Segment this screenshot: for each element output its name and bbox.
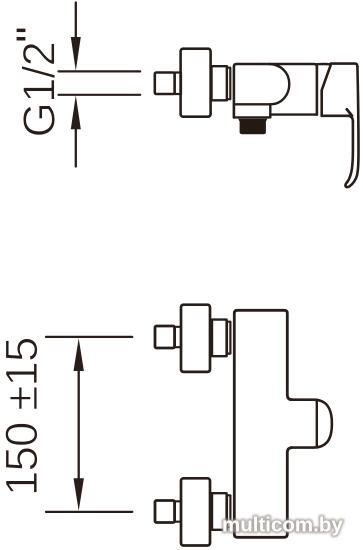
svg-text:G1/2: G1/2 (14, 42, 65, 137)
extension line top (nut top edge) (59, 70, 141, 72)
front view: lower supply nut (155, 501, 175, 523)
dimension line top view (vertical, below) (75, 126, 77, 167)
top view: supply nut (155, 73, 175, 95)
front view: upper adapter (212, 320, 227, 357)
top view: shower outlet (black) (238, 119, 267, 134)
extension line bottom (nut bottom edge) (59, 94, 141, 96)
top view: body outline (234, 64, 317, 117)
top view: under-dome line (234, 103, 272, 105)
top view: cartridge dome (269, 64, 289, 104)
top view: handle top edge (331, 64, 358, 67)
front view: handle chord line (316, 400, 318, 448)
arrowhead up (front view) (74, 338, 84, 371)
front view: upper supply nut (155, 326, 175, 348)
top view: lower chunk right edge (269, 104, 271, 117)
front view: lower ring (227, 495, 230, 527)
watermark multicom.by (222, 514, 343, 537)
inch quote mark 1 (17, 29, 26, 32)
front view: upper ring (227, 322, 230, 354)
arrowhead up (top view) (71, 95, 81, 129)
svg-text:multicom.by: multicom.by (222, 514, 343, 537)
dimension line top view (vertical, above) (75, 3, 77, 41)
top view: lever inner edge (347, 122, 353, 182)
extension line lower (front view) (46, 511, 132, 513)
arrowhead down (front view) (74, 478, 84, 511)
dimension line front view (78, 368, 80, 480)
front view: lower adapter (212, 493, 227, 530)
front view: upper shank (175, 327, 182, 347)
top view: escutcheon (181, 49, 211, 117)
arrowhead down (top view) (71, 37, 81, 71)
front view: handle stub outline (291, 400, 332, 448)
top view: lever outer edge (345, 67, 358, 188)
inch quote mark 2 (17, 37, 26, 41)
front view: lower shank (175, 501, 182, 521)
top view: ring (227, 68, 230, 100)
front view: lower escutcheon (181, 478, 210, 545)
top view: handle bottom edge (322, 116, 353, 122)
svg-text:150 ±15: 150 ±15 (0, 337, 47, 496)
front view: body (234, 310, 292, 537)
top view: handle diagonal edge (322, 64, 331, 115)
top view: handle cap top curve (317, 63, 331, 66)
top view: adapter (212, 66, 227, 100)
top view: nut-to-escutcheon shank (175, 73, 181, 95)
top view: bottom line to handle (270, 113, 317, 115)
top view: handle spur (347, 109, 352, 116)
front view: upper escutcheon (181, 305, 210, 372)
extension line upper (front view) (46, 336, 132, 338)
top view: chunk bottom edge (234, 116, 270, 118)
